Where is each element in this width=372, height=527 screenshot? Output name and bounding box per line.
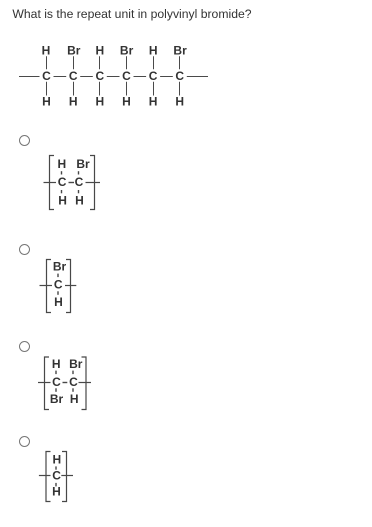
wire bond C5-C6 <box>160 76 173 78</box>
option 2 structure: [ Br / C / H ] <box>40 260 77 313</box>
wire bond C2-Br top <box>73 56 75 69</box>
radio button option4 <box>19 436 30 447</box>
wire bond C2-H bottom <box>73 82 75 96</box>
svg-text:C: C <box>52 375 61 389</box>
bracket right option4 <box>62 452 67 502</box>
wire dash C-H bottom option4 <box>55 483 57 487</box>
svg-text:H: H <box>70 392 79 406</box>
svg-text:C: C <box>54 278 63 292</box>
wire bond C5-H bottom <box>153 82 155 96</box>
wire dash C2-H bottom option3 <box>72 388 74 392</box>
wire bond C1-C2 <box>54 76 67 78</box>
svg-text:C: C <box>42 69 51 83</box>
bracket left option3 <box>45 357 50 410</box>
wire dash C-H top option4 <box>55 466 57 469</box>
svg-text:Br: Br <box>69 357 83 371</box>
radio button option3 <box>19 341 30 352</box>
svg-text:C: C <box>149 69 158 83</box>
wire bond C1-H bottom <box>46 82 48 96</box>
wire stub right option2 <box>65 285 76 287</box>
svg-text:H: H <box>42 95 51 109</box>
svg-text:C: C <box>52 469 61 483</box>
wire dash C1-Br bottom option3 <box>55 388 57 392</box>
svg-text:Br: Br <box>50 392 64 406</box>
svg-text:H: H <box>122 95 131 109</box>
wire bond C6-H bottom <box>179 82 181 96</box>
svg-text:H: H <box>52 485 61 499</box>
svg-text:C: C <box>95 69 104 83</box>
wire dash C-C option1 <box>69 182 75 184</box>
wire bond C1-H top <box>46 56 48 69</box>
svg-text:C: C <box>69 69 78 83</box>
svg-text:H: H <box>149 44 158 58</box>
svg-text:H: H <box>54 295 63 309</box>
svg-text:H: H <box>75 193 84 207</box>
wire dash C1-H top option1 <box>61 171 63 174</box>
option 1 structure: [ H Br / C-C / H H ] <box>44 156 101 210</box>
svg-text:Br: Br <box>76 157 90 171</box>
svg-text:H: H <box>57 157 66 171</box>
wire stub left option1 <box>44 182 57 184</box>
wire bond C2-C3 <box>80 76 93 78</box>
bracket left option1 <box>50 156 55 210</box>
svg-text:H: H <box>175 95 184 109</box>
wire stub right option3 <box>79 382 92 384</box>
radio button option1 <box>19 135 30 146</box>
svg-text:H: H <box>149 95 158 109</box>
wire dash C2-H bottom option1 <box>78 190 80 193</box>
option 3 structure: [ H Br / C-C / Br H ] <box>38 357 91 410</box>
wire dash C1-H bottom option1 <box>61 190 63 193</box>
bracket left option4 <box>46 452 51 502</box>
wire dash C-H bottom option2 <box>57 291 59 295</box>
svg-text:C: C <box>69 375 78 389</box>
svg-text:H: H <box>69 95 78 109</box>
wire dash C-Br top option2 <box>57 274 59 278</box>
wire main chain right end <box>187 76 208 78</box>
svg-text:C: C <box>58 175 67 189</box>
wire bond C4-H bottom <box>126 82 128 96</box>
wire stub left option2 <box>40 285 53 287</box>
wire dash C2-Br top option1 <box>78 171 80 174</box>
bracket right option2 <box>66 260 71 313</box>
option 4 structure: [ H / C / H ] <box>39 452 73 502</box>
svg-text:Br: Br <box>67 44 81 58</box>
svg-text:C: C <box>175 69 184 83</box>
bracket right option3 <box>82 357 87 410</box>
radio button option2 <box>19 244 30 255</box>
wire dash C2-Br top option3 <box>72 371 74 375</box>
wire dash C-C option3 <box>63 382 68 384</box>
svg-text:Br: Br <box>173 44 187 58</box>
wire bond C4-C5 <box>134 76 147 78</box>
wire stub left option4 <box>39 475 51 477</box>
wire bond C3-H top <box>99 56 101 69</box>
svg-text:H: H <box>95 95 104 109</box>
wire bond C6-Br top <box>179 56 181 69</box>
wire dash C1-H top option3 <box>55 371 57 375</box>
bracket left option2 <box>47 260 52 313</box>
wire bond C5-H top <box>153 56 155 69</box>
wire bond C4-Br top <box>126 56 128 69</box>
svg-text:H: H <box>42 44 51 58</box>
bracket right option1 <box>90 156 95 210</box>
svg-text:H: H <box>52 452 61 466</box>
wire stub right option4 <box>61 475 73 477</box>
wire stub left option3 <box>38 382 51 384</box>
svg-text:H: H <box>52 357 61 371</box>
svg-text:Br: Br <box>120 44 134 58</box>
svg-text:H: H <box>95 44 104 58</box>
wire stub right option1 <box>86 182 101 184</box>
wire main chain left end <box>19 76 40 78</box>
wire bond C3-H bottom <box>99 82 101 96</box>
svg-text:C: C <box>122 69 131 83</box>
svg-text:H: H <box>58 193 67 207</box>
svg-text:Br: Br <box>53 260 67 274</box>
wire bond C3-C4 <box>107 76 120 78</box>
question text <box>12 7 251 21</box>
svg-text:C: C <box>75 175 84 189</box>
